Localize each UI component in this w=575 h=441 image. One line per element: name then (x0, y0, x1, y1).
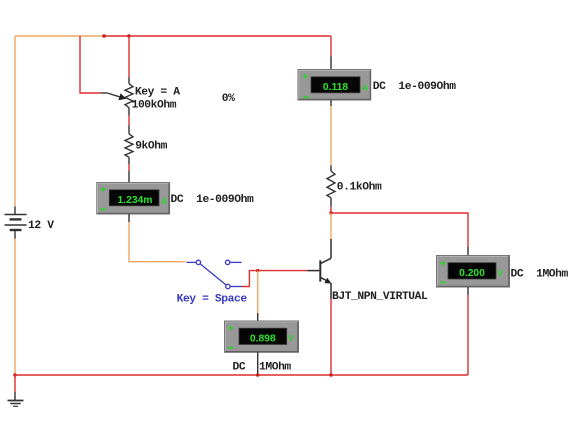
potentiometer R1 arrowhead (118, 93, 126, 100)
battery V1 12V (5, 207, 27, 239)
voltmeter U4 (0.898) (225, 321, 299, 352)
wire ammeter U1 top pin (330, 57, 332, 70)
resistor R3 0.1kOhm (327, 165, 335, 206)
svg-text:DC: DC (511, 268, 524, 280)
svg-text:1MOhm: 1MOhm (259, 362, 291, 374)
wire left bus lower (14, 238, 16, 375)
wire switch to base (red) (242, 271, 307, 287)
wire U1 to R3 (orange) (330, 106, 332, 165)
wire emitter to bottom bus (red) (330, 299, 332, 374)
potentiometer R1 100kOhm (101, 77, 133, 116)
svg-text:0.118: 0.118 (323, 82, 348, 93)
svg-text:A: A (161, 196, 167, 206)
wire ammeter U2 bottom pin (128, 214, 130, 222)
svg-text:V: V (497, 268, 503, 278)
svg-text:Key: Key (177, 294, 197, 306)
wire bottom bus (15, 374, 468, 376)
svg-text:9kOhm: 9kOhm (135, 141, 167, 153)
ground GND (8, 392, 24, 406)
svg-text:+: + (228, 323, 234, 335)
svg-text:=: = (160, 87, 167, 99)
svg-text:1MOhm: 1MOhm (536, 268, 568, 280)
switch S1 Key = Space (187, 260, 243, 289)
svg-text:+: + (302, 71, 308, 83)
svg-text:0%: 0% (222, 93, 235, 105)
resistor R2 9kOhm (125, 125, 133, 164)
svg-text:A: A (173, 87, 180, 99)
wire top bus orange segment (15, 35, 104, 37)
svg-text:100kOhm: 100kOhm (132, 99, 177, 111)
wire ammeter U2 top pin (128, 171, 130, 183)
wire junction to voltmeter U4 (orange) (257, 271, 259, 313)
wire U3 to bottom bus (red) (467, 295, 469, 375)
node junction collector (329, 211, 333, 215)
svg-text:Key: Key (135, 87, 155, 99)
wire top bus red segment (104, 35, 331, 37)
node junction top bus A (102, 34, 106, 38)
node junction top bus B (127, 34, 131, 38)
svg-text:1e-009Ohm: 1e-009Ohm (196, 194, 254, 206)
wire R3 to junction (330, 206, 332, 213)
wire ammeter U1 bottom pin (330, 100, 332, 106)
svg-text:0.200: 0.200 (459, 268, 485, 279)
svg-text:1e-009Ohm: 1e-009Ohm (398, 81, 456, 93)
transistor Q1 emitter arrowhead (324, 278, 331, 284)
wire voltmeter U3 bottom pin (467, 287, 469, 295)
svg-text:+: + (100, 184, 106, 196)
node junction bottom-left (13, 373, 17, 377)
node junction base/voltmeter (256, 269, 260, 273)
node junction U4/bottom bus (256, 373, 260, 377)
node junction emitter/bottom bus (329, 373, 333, 377)
wire collector junction to right (red) (331, 213, 468, 247)
svg-text:V: V (47, 220, 54, 232)
svg-text:BJT_NPN_VIRTUAL: BJT_NPN_VIRTUAL (332, 291, 428, 303)
wire ground stub red (14, 375, 16, 392)
svg-text:Space: Space (215, 294, 247, 306)
ammeter U1 (0.118) (298, 70, 371, 101)
wire pot to 9k (128, 116, 130, 126)
wire pot top (128, 36, 130, 77)
wire voltmeter U4 top pin (257, 313, 259, 321)
wire voltmeter U4 bottom pin (257, 352, 259, 373)
wire voltmeter U3 top pin (467, 247, 469, 256)
svg-text:V: V (288, 333, 294, 343)
svg-text:DC: DC (373, 81, 386, 93)
wire 9k to ammeter U2 (128, 164, 130, 171)
svg-text:DC: DC (171, 194, 184, 206)
transistor Q1 BJT_NPN_VIRTUAL (307, 239, 331, 299)
ammeter U2 (1.234m) (97, 183, 170, 215)
voltmeter U3 (0.200) (437, 256, 510, 288)
svg-text:+: + (440, 258, 446, 270)
svg-text:=: = (202, 294, 209, 306)
svg-text:0.898: 0.898 (250, 334, 276, 345)
wire junction to collector (orange) (330, 213, 332, 239)
svg-text:DC: DC (233, 362, 246, 374)
wire pot-arm drop (80, 36, 101, 93)
svg-text:0.1kOhm: 0.1kOhm (337, 182, 382, 194)
wire meter A top (red) (330, 36, 332, 57)
wire U2 to switch (orange) (129, 222, 186, 262)
wire left bus upper (battery +) (14, 36, 16, 207)
svg-text:12: 12 (28, 220, 41, 232)
svg-text:1.234m: 1.234m (118, 195, 153, 206)
svg-text:A: A (362, 83, 368, 93)
